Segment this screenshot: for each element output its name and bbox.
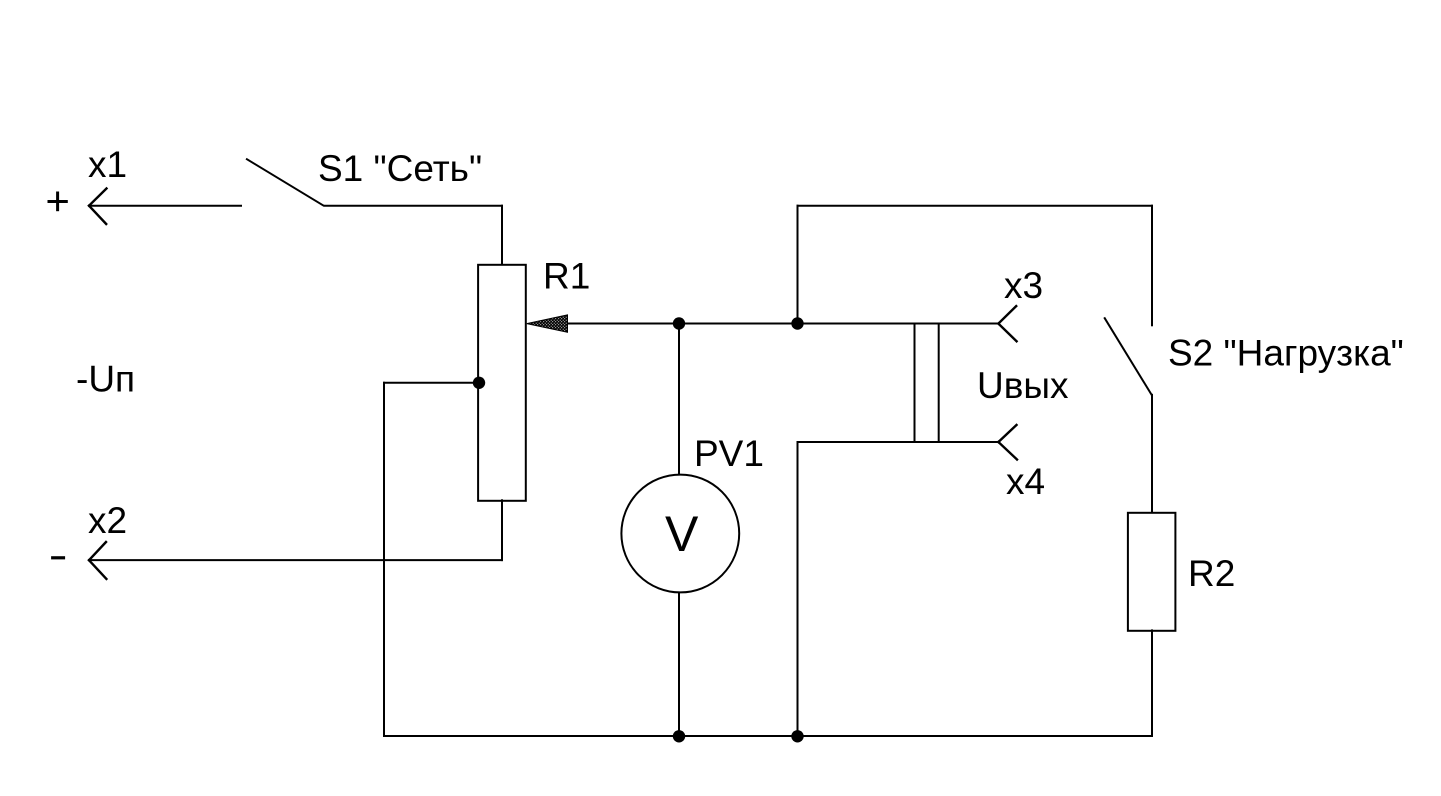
bottom bus wire — [384, 735, 1152, 737]
wire X1 to S1 — [89, 205, 241, 207]
wire to X4 — [798, 441, 999, 443]
svg-text:x4: x4 — [1006, 461, 1045, 502]
svg-text:PV1: PV1 — [694, 433, 764, 474]
svg-text:Uвых: Uвых — [977, 365, 1069, 406]
node dot bottom PV1 — [673, 730, 685, 742]
wire R1 bottom to X2 — [89, 559, 502, 561]
cable screen line right — [938, 324, 940, 443]
connector X1 arrow — [89, 189, 107, 225]
svg-text:x1: x1 — [88, 144, 127, 185]
svg-text:R1: R1 — [543, 256, 590, 297]
wire node to top rail — [797, 206, 799, 324]
R2 bottom lead — [1151, 630, 1153, 736]
svg-text:x2: x2 — [88, 500, 127, 541]
minus sign — [53, 556, 64, 559]
connector X4 — [998, 425, 1017, 460]
svg-text:V: V — [665, 506, 699, 562]
svg-text:-Uп: -Uп — [76, 359, 135, 400]
node dot wiper-rail — [791, 317, 803, 329]
connector X2 arrow — [89, 542, 106, 579]
top rail wire — [798, 205, 1153, 207]
node dot wiper-PV1 — [673, 317, 685, 329]
wire lower-right branch vertical — [797, 442, 799, 736]
wire R1 left tap — [384, 382, 479, 384]
switch S2 blade — [1105, 318, 1152, 395]
switch S2 fixed contact — [1151, 206, 1153, 326]
wire S1 to corner — [325, 205, 503, 207]
R1 bottom lead — [501, 500, 503, 560]
svg-text:S1 "Сеть": S1 "Сеть" — [318, 148, 482, 189]
resistor R2 body — [1128, 513, 1176, 631]
voltmeter PV1 circle — [621, 475, 739, 593]
wire left vertical to bottom — [383, 383, 385, 736]
connector X3 — [998, 306, 1016, 341]
svg-text:S2 "Нагрузка": S2 "Нагрузка" — [1168, 333, 1404, 374]
R1 wiper wire — [564, 323, 998, 325]
plus sign — [49, 193, 66, 210]
cable screen line left — [914, 324, 916, 443]
svg-text:R2: R2 — [1188, 553, 1235, 594]
wire PV1 to bottom bus — [678, 592, 680, 736]
node dot bottom branch — [791, 730, 803, 742]
R1 wiper arrow — [527, 315, 568, 332]
wire wiper node to PV1 — [678, 324, 680, 476]
node dot R1 tap — [473, 377, 485, 389]
wire S2 to R2 — [1151, 395, 1153, 513]
svg-text:x3: x3 — [1004, 265, 1043, 306]
wire down to R1 top — [501, 206, 503, 265]
resistor R1 body — [478, 265, 526, 501]
switch S1 blade — [247, 159, 323, 205]
